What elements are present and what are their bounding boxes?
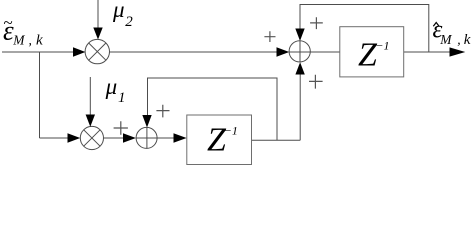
plus sign left input of S2 — [114, 121, 128, 134]
adder S2 (bottom) — [136, 127, 157, 148]
svg-text:μ: μ — [105, 74, 118, 99]
arrowhead feedback into S1 top — [295, 29, 304, 41]
svg-text:μ: μ — [112, 0, 125, 22]
multiplier M1 (top, mu2) — [85, 39, 109, 63]
arrowhead lower path into S1 bottom — [295, 62, 304, 74]
svg-text:1: 1 — [118, 90, 126, 106]
label mu2 — [112, 0, 133, 30]
wire multiplier M2 to adder S2 — [104, 137, 125, 139]
wire delay box Z2 output — [252, 139, 301, 141]
svg-text:k: k — [36, 33, 43, 49]
label input epsilon tilde M,k — [3, 13, 43, 48]
svg-text:−1: −1 — [224, 124, 238, 138]
arrowhead input into M1 — [73, 47, 85, 56]
arrowhead feedback into S2 top — [142, 115, 151, 128]
wire multiplier M1 to adder S1 — [110, 51, 279, 53]
arrowhead output — [450, 47, 466, 56]
arrowhead mu1 into M2 — [86, 115, 95, 127]
svg-text:−1: −1 — [375, 39, 389, 53]
arrowhead S2 into Z2 — [174, 133, 187, 142]
wire mu2 input vertical — [97, 0, 99, 29]
wire lower horizontal into multiplier M2 — [40, 137, 70, 139]
wire delay box Z1 to output — [404, 51, 452, 53]
svg-text:,: , — [457, 32, 460, 47]
delay box Z1 (top right) — [340, 27, 404, 77]
plus sign left input of S1 — [114, 17, 323, 134]
svg-text:2: 2 — [125, 14, 133, 30]
wire mu1 input vertical — [89, 77, 91, 116]
svg-text:M: M — [439, 32, 452, 47]
label mu1 — [105, 74, 126, 106]
plus sign top input of S2 — [156, 105, 169, 118]
plus sign bottom input of S1 — [309, 75, 323, 89]
plus sign top input of S1 — [310, 17, 323, 29]
wire adder S1 to delay box Z1 — [310, 51, 340, 53]
arrowhead lower input into M2 — [68, 133, 81, 142]
adder S1 (right) — [289, 41, 310, 62]
wire branch vertical to lower path — [39, 52, 41, 138]
svg-text:k: k — [464, 32, 471, 48]
wire main input line — [2, 51, 76, 53]
wire adder S2 to delay box Z2 — [157, 137, 174, 139]
wire lower feedback loop — [148, 78, 278, 140]
arrowhead M1 into S1 — [277, 47, 290, 56]
arrowhead mu2 into M1 — [93, 28, 102, 40]
svg-text:M: M — [12, 32, 25, 47]
arrowhead M2 into S2 — [123, 133, 136, 142]
wire top feedback loop — [300, 5, 429, 53]
label output epsilon hat M,k — [433, 16, 471, 48]
wire lower output up to adder S1 bottom — [299, 74, 301, 140]
svg-text:~: ~ — [3, 13, 12, 32]
svg-text:,: , — [29, 32, 32, 47]
delay box Z2 (bottom) — [187, 115, 252, 165]
multiplier M2 (bottom, mu1) — [80, 126, 103, 149]
